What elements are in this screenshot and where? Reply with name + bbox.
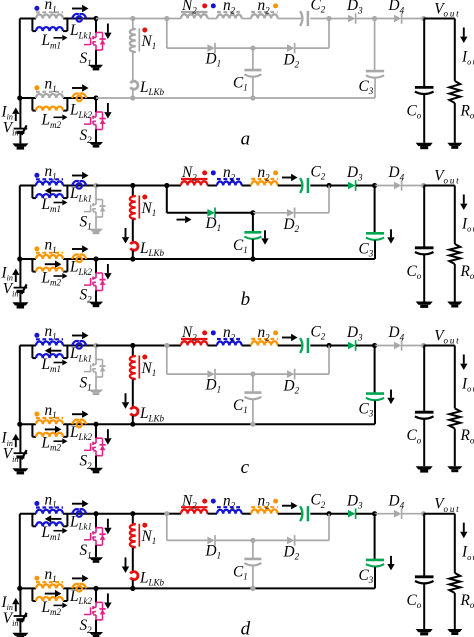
wire C1 upper lead (a)	[252, 48, 254, 70]
arrow LLk2 current (d)	[72, 577, 82, 579]
wire Lm2 box (a)	[31, 98, 33, 111]
node LLKb bottom (a)	[130, 95, 135, 100]
node N2 dot (a)	[202, 3, 207, 8]
arrow secondary current (d)	[282, 505, 291, 507]
wire D1 branch vertical (b)	[166, 186, 168, 213]
wire D2 riser vertical (d)	[328, 514, 330, 541]
node N2 dot (d)	[202, 499, 207, 504]
wire D2 to riser (d)	[295, 539, 329, 541]
node N1 dot (c)	[142, 355, 147, 360]
arrow Iout current (c)	[463, 355, 465, 364]
winding n1 phase2 coil (b)	[36, 255, 63, 259]
ground Co (a)	[416, 143, 433, 146]
arrow Lm1 current (d)	[51, 518, 61, 520]
inductor Lm2 (b)	[36, 268, 63, 272]
wire N1 core bar (b)	[138, 196, 140, 219]
wire Vin to ground (d)	[19, 620, 21, 633]
inductor LLk2 (d)	[72, 584, 79, 589]
arrow C3 current (d)	[390, 556, 392, 564]
ground Ro (a)	[447, 143, 462, 146]
node after C2 (a)	[326, 16, 331, 21]
inductor LLk2 (c)	[72, 420, 79, 425]
wire Lm1 box (a)	[31, 19, 33, 32]
wire Co lower lead (c)	[423, 419, 425, 466]
wire Lm2 box (b)	[31, 259, 33, 272]
wire top rail left section (b)	[20, 185, 36, 187]
winding n2 orange dashed core (a)	[251, 11, 278, 13]
ground S2 (b)	[89, 302, 103, 305]
ground S1 (c)	[89, 390, 103, 393]
node n1 dot phase1 (d)	[34, 501, 39, 506]
wire n2 to C2 (d)	[278, 513, 302, 515]
wire S1 source (b)	[95, 217, 97, 229]
wire Vin lead (a)	[19, 98, 21, 129]
wire Lm1 box (c)	[31, 346, 33, 359]
arrow Lm2 current (b)	[45, 263, 55, 265]
wire D1 to C1 (a)	[215, 47, 253, 49]
wire D2 riser vertical (c)	[328, 346, 330, 375]
capacitor Co (a)	[415, 86, 434, 89]
wire C1 lower lead (d)	[252, 566, 254, 589]
capacitor C2 (a)	[300, 11, 302, 26]
wire N1 branch upper (a)	[132, 19, 134, 29]
arrow Iin current (d)	[15, 604, 17, 611]
wire S2 drain (c)	[95, 424, 97, 438]
capacitor C2 (b)	[300, 178, 302, 193]
arrow Lm1 label (d)	[54, 530, 63, 532]
node D1 branch junction (b)	[164, 183, 169, 188]
wire D4 cathode (d)	[402, 513, 424, 515]
wire D4 anode (c)	[375, 345, 394, 347]
transistor S2 MOSFET (b)	[96, 272, 103, 274]
diode D3 (a)	[348, 15, 355, 23]
wire C1 lower lead (a)	[252, 77, 254, 98]
node D1 branch junction (a)	[164, 16, 169, 21]
wire S2 drain (d)	[95, 588, 97, 602]
node D1 branch junction (d)	[164, 511, 169, 516]
capacitor C1 (c)	[244, 391, 261, 394]
wire S2 drain (b)	[95, 259, 97, 273]
inductor Lm1 (c)	[36, 354, 63, 358]
source Vin battery (d)	[14, 615, 28, 617]
wire D2 to riser (c)	[295, 373, 329, 375]
capacitor Co (c)	[415, 411, 434, 414]
node switch S1 drain (a)	[93, 16, 98, 21]
winding N2 core bar (b)	[181, 178, 208, 180]
wire D1 to C1 (d)	[215, 539, 253, 541]
node LLKb bottom (d)	[130, 586, 135, 591]
winding n2 orange dashed core (d)	[251, 506, 278, 508]
wire to D1 anode (d)	[167, 539, 208, 541]
node switch S2 drain (c)	[93, 422, 98, 427]
wire Co lower lead (b)	[423, 255, 425, 302]
node N1 dot (b)	[142, 195, 147, 200]
source Vin battery (c)	[14, 452, 28, 454]
ground S1 (a)	[89, 65, 103, 68]
node n1 dot phase2 (d)	[34, 576, 39, 581]
wire to D1 anode (b)	[167, 212, 208, 214]
arrow S2 current (b)	[107, 264, 109, 273]
wire C1 node to D2 (c)	[253, 373, 287, 375]
wire C3 lower lead (d)	[374, 567, 376, 589]
inductor Lm1 (a)	[36, 27, 63, 31]
node switch S1 drain (c)	[93, 343, 98, 348]
node switch S1 drain (d)	[93, 511, 98, 516]
wire N1 branch upper (c)	[132, 346, 134, 356]
wire C2 to node (d)	[310, 513, 329, 515]
arrow C3 current (c)	[390, 390, 392, 398]
node n1 dot phase1 (c)	[34, 333, 39, 338]
arrow LLk2 current (a)	[72, 87, 82, 89]
ground S2 (a)	[89, 142, 103, 145]
transistor S2 MOSFET (c)	[96, 437, 103, 439]
arrow Lm2 label (b)	[54, 275, 63, 277]
winding n2 orange coil (c)	[251, 341, 277, 345]
wire to D1 anode (c)	[167, 373, 208, 375]
transistor S1 MOSFET (a)	[96, 32, 103, 34]
node after C2 (b)	[326, 183, 331, 188]
diode D4 (c)	[394, 342, 401, 350]
svg-text:c: c	[241, 457, 250, 478]
node N1 dot (a)	[142, 28, 147, 33]
diode D3 (b)	[348, 182, 355, 190]
node C1 top (d)	[250, 538, 255, 543]
wire D3 to node (b)	[356, 185, 375, 187]
resistor Ro (a)	[449, 81, 460, 103]
inductor LLk2 (a)	[72, 93, 79, 98]
wire output rail (d)	[424, 513, 455, 515]
wire top rail middle (a)	[96, 18, 167, 20]
arrow Lm1 label (c)	[54, 362, 63, 364]
ground S2 (d)	[89, 632, 103, 635]
inductor LLKb (c)	[131, 407, 138, 415]
wire C3 lower lead (a)	[374, 78, 376, 98]
winding n2 orange coil (b)	[251, 181, 277, 185]
inductor Lm1 (b)	[36, 194, 63, 198]
arrow Lm1 current (c)	[51, 350, 61, 352]
inductor Lm2 (c)	[36, 433, 63, 437]
wire D1 branch vertical (c)	[166, 346, 168, 375]
wire Co upper lead (d)	[423, 514, 425, 577]
arrow LLk2 current (b)	[72, 248, 82, 250]
node Vout (c)	[421, 343, 426, 348]
wire S1 drain (a)	[95, 19, 97, 33]
wire n2 to n2 (c)	[242, 345, 252, 347]
ground Ro (d)	[447, 629, 462, 632]
winding N2 coil (d)	[181, 510, 207, 514]
wire n2 to C2 (c)	[278, 345, 302, 347]
arrow Iin current (c)	[15, 440, 17, 447]
node Vout (d)	[421, 511, 426, 516]
inductor Lm2 (d)	[36, 597, 63, 601]
diode D3 (c)	[348, 342, 355, 350]
capacitor C3 (a)	[366, 70, 384, 73]
winding N2 core bar (c)	[181, 338, 208, 340]
arrow Iin current (a)	[15, 114, 17, 121]
diode D4 (a)	[394, 15, 401, 23]
wire LLKb lower lead (c)	[132, 416, 134, 425]
wire C3 upper lead (d)	[374, 514, 376, 560]
arrow LLk1 current (c)	[72, 335, 82, 337]
inductor Lm2 (a)	[36, 107, 63, 111]
wire Ro lower lead (b)	[454, 264, 456, 302]
wire n2 to C2 (b)	[278, 185, 302, 187]
wire left vertical input (c)	[19, 346, 21, 425]
node after D3 (b)	[372, 183, 377, 188]
arrow Lm2 label (a)	[54, 116, 63, 118]
wire bottom rail left section (a)	[20, 97, 36, 99]
node after D3 (a)	[372, 16, 377, 21]
capacitor Co (d)	[415, 575, 434, 578]
winding n1 phase2 coil (a)	[36, 94, 63, 98]
winding N2 core bar (d)	[181, 506, 208, 508]
wire Ro lower lead (a)	[454, 103, 456, 143]
wire N1 core bar (c)	[138, 356, 140, 379]
wire N1 to LLKb (b)	[132, 220, 134, 242]
diode D2 (a)	[287, 44, 294, 52]
winding n1 phase2 dashed core (d)	[36, 581, 63, 583]
wire Ro upper lead (c)	[454, 346, 456, 409]
wire D2 riser vertical (a)	[328, 19, 330, 49]
node LLKb bottom (b)	[130, 256, 135, 261]
arrow Lm1 current (b)	[51, 190, 61, 192]
wire S1 source (d)	[95, 545, 97, 557]
wire S2 source (d)	[95, 620, 97, 632]
arrow LLKb current (b)	[125, 228, 127, 237]
wire D4 cathode (b)	[402, 185, 424, 187]
winding n1 phase1 dashed core (b)	[36, 178, 63, 180]
node input rail junction (d)	[17, 586, 22, 591]
wire D2 to riser (a)	[295, 47, 329, 49]
winding n1 phase2 coil (d)	[36, 584, 63, 588]
node n2 blue dot (c)	[211, 330, 216, 335]
wire D4 anode (d)	[375, 513, 394, 515]
wire bottom rail right section (a)	[96, 97, 133, 99]
wire N1 to LLKb (c)	[132, 380, 134, 407]
wire N2 to n2 (b)	[208, 185, 218, 187]
node n2 orange dot (d)	[273, 499, 278, 504]
ground Ro (c)	[447, 466, 462, 469]
wire Vin lead (b)	[19, 259, 21, 288]
wire S1 source (a)	[95, 50, 97, 65]
wire C3 upper lead (a)	[374, 19, 376, 72]
wire top rail left section (d)	[20, 513, 36, 515]
wire Ro lower lead (d)	[454, 593, 456, 629]
capacitor Co (b)	[415, 246, 434, 249]
node n2 orange dot (b)	[273, 170, 278, 175]
wire N2 to n2 (d)	[208, 513, 218, 515]
node C1 bottom (b)	[250, 256, 255, 261]
wire C2 to node (c)	[310, 345, 329, 347]
wire bottom rail left section (b)	[20, 258, 36, 260]
node N1 top (a)	[130, 16, 135, 21]
winding n2 orange dashed core (b)	[251, 178, 278, 180]
node n1 dot phase2 (b)	[34, 246, 39, 251]
winding n1 phase1 dashed core (d)	[36, 506, 63, 508]
wire D2 to riser (b)	[295, 212, 329, 214]
node after C2 (c)	[326, 343, 331, 348]
winding n2 orange dashed core (c)	[251, 338, 278, 340]
node N2 dot (b)	[202, 170, 207, 175]
wire bottom rail left section (d)	[20, 587, 36, 589]
capacitor C1 (d)	[244, 558, 261, 561]
winding n1 phase2 coil (c)	[36, 420, 63, 424]
node N1 dot (d)	[142, 523, 147, 528]
capacitor C2 (d)	[300, 506, 302, 521]
capacitor C1 (b)	[244, 231, 261, 234]
arrow C1 current (b)	[264, 230, 266, 238]
ground Vin (b)	[12, 302, 28, 305]
diode D3 (d)	[348, 510, 355, 518]
wire N1 branch upper (b)	[132, 186, 134, 196]
diode D4 (b)	[394, 182, 401, 190]
node n2 orange dot (a)	[273, 3, 278, 8]
wire left vertical input (a)	[19, 19, 21, 99]
arrow LLk2 current (c)	[72, 413, 82, 415]
resistor Ro (c)	[449, 408, 460, 428]
node Vout (b)	[421, 183, 426, 188]
winding n2 blue dashed core (b)	[217, 178, 242, 180]
wire Vin to ground (a)	[19, 133, 21, 144]
node N2 dot (c)	[202, 330, 207, 335]
arrow Lm2 label (c)	[54, 440, 63, 442]
arrow Lm2 label (d)	[54, 604, 63, 606]
ground S1 (d)	[89, 557, 103, 560]
capacitor C3 (d)	[366, 559, 384, 562]
wire C2 to node (b)	[310, 185, 329, 187]
node D1 branch junction (c)	[164, 343, 169, 348]
wire bottom rail left section (c)	[20, 423, 36, 425]
wire Lm2 box (c)	[31, 424, 33, 437]
node after D3 (d)	[372, 511, 377, 516]
diode D1 (b)	[207, 209, 214, 217]
wire left vertical input (d)	[19, 514, 21, 589]
wire C1 lower lead (c)	[252, 400, 254, 425]
node C1 top (a)	[250, 46, 255, 51]
wire n2 to C2 (a)	[278, 18, 302, 20]
winding n2 blue coil (d)	[217, 510, 242, 514]
wire Co upper lead (c)	[423, 346, 425, 413]
arrow Iin current (b)	[15, 275, 17, 282]
wire N1 branch upper (d)	[132, 514, 134, 524]
wire D3 to node (d)	[356, 513, 375, 515]
ground S2 (c)	[89, 468, 103, 471]
wire Co lower lead (d)	[423, 584, 425, 629]
wire S1 source (c)	[95, 377, 97, 390]
diode D2 (d)	[287, 537, 294, 545]
node n2 blue dot (a)	[211, 3, 216, 8]
resistor Ro (d)	[449, 573, 460, 593]
node switch S1 drain (b)	[93, 183, 98, 188]
wire n2 to n2 (b)	[242, 185, 252, 187]
wire LLKb lower lead (a)	[132, 90, 134, 99]
winding n1 phase1 coil (d)	[36, 510, 63, 514]
node LLKb bottom (c)	[130, 422, 135, 427]
wire S1 drain (b)	[95, 186, 97, 200]
svg-text:d: d	[241, 619, 251, 637]
transformer N1 primary coil (c)	[133, 355, 136, 358]
wire LLKb lower lead (b)	[132, 251, 134, 260]
transformer N1 primary coil (d)	[133, 523, 136, 526]
wire top rail middle (b)	[96, 185, 167, 187]
diode D1 (a)	[207, 44, 214, 52]
arrow Lm2 current (c)	[45, 428, 55, 430]
wire D4 anode (b)	[375, 185, 394, 187]
wire N1 to LLKb (a)	[132, 53, 134, 81]
wire D3 to node (c)	[356, 345, 375, 347]
resistor Ro (b)	[449, 244, 460, 264]
arrow S1 current (a)	[107, 24, 109, 33]
arrow Iout current (a)	[463, 28, 465, 37]
node n1 dot phase1 (b)	[34, 173, 39, 178]
node after D3 (c)	[372, 343, 377, 348]
wire D4 cathode (a)	[402, 18, 424, 20]
node C1 bottom (d)	[250, 586, 255, 591]
transistor S2 MOSFET (a)	[96, 111, 103, 113]
ground Co (d)	[416, 629, 433, 632]
transistor S1 MOSFET (d)	[96, 527, 103, 529]
inductor LLKb (d)	[131, 572, 138, 580]
wire left vertical input (b)	[19, 186, 21, 260]
node n1 dot phase1 (a)	[34, 6, 39, 11]
ground Vin (a)	[12, 143, 28, 146]
winding n2 blue dashed core (a)	[217, 11, 242, 13]
winding n1 phase1 dashed core (c)	[36, 338, 63, 340]
wire bottom rail right section (b)	[96, 258, 133, 260]
node switch S2 drain (b)	[93, 256, 98, 261]
wire S2 source (a)	[95, 130, 97, 143]
winding n1 phase2 dashed core (b)	[36, 252, 63, 254]
node n1 dot phase2 (a)	[34, 85, 39, 90]
winding n1 phase1 dashed core (a)	[36, 11, 63, 13]
node N1 top (b)	[130, 183, 135, 188]
wire output rail (a)	[424, 18, 455, 20]
wire D4 cathode (c)	[402, 345, 424, 347]
arrow Lm1 label (b)	[54, 202, 63, 204]
wire N2 to n2 (c)	[208, 345, 218, 347]
diode D1 (c)	[207, 370, 214, 378]
node C1 top (b)	[250, 210, 255, 215]
node N1 top (d)	[130, 511, 135, 516]
wire C3 upper lead (c)	[374, 346, 376, 394]
capacitor C2 (c)	[300, 338, 302, 353]
wire Ro upper lead (b)	[454, 186, 456, 245]
wire top rail left section (a)	[20, 18, 36, 20]
arrow Iout current (d)	[463, 523, 465, 532]
wire C2 to node (a)	[310, 18, 329, 20]
wire S2 drain (a)	[95, 98, 97, 112]
wire D1 branch vertical (d)	[166, 514, 168, 541]
winding N2 coil (c)	[181, 341, 207, 345]
inductor LLKb (b)	[131, 242, 138, 250]
winding n2 blue coil (b)	[217, 182, 242, 186]
inductor LLKb (a)	[131, 81, 138, 89]
wire C1 upper lead (c)	[252, 374, 254, 393]
winding N2 coil (b)	[181, 181, 207, 185]
arrow S2 current (c)	[107, 429, 109, 438]
wire n2 to n2 (d)	[242, 513, 252, 515]
wire node to D3 (a)	[329, 18, 348, 20]
wire Vin lead (d)	[19, 588, 21, 616]
winding n2 blue dashed core (c)	[217, 338, 242, 340]
arrow LLk1 current (b)	[72, 175, 82, 177]
node n2 orange dot (c)	[273, 330, 278, 335]
wire C3 lower lead (b)	[374, 240, 376, 259]
diode D4 (d)	[394, 510, 401, 518]
arrow LLKb current (d)	[125, 557, 127, 566]
node switch S2 drain (a)	[93, 95, 98, 100]
ground S1 (b)	[89, 229, 103, 232]
